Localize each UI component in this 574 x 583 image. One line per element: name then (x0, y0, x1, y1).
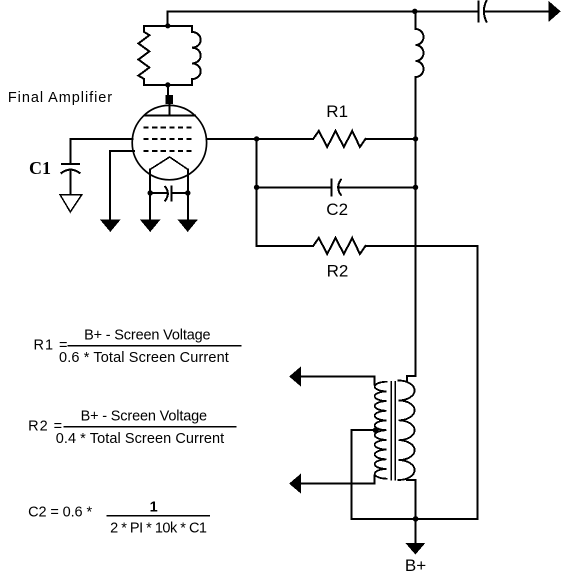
wire tank bottom bar (144, 84, 192, 86)
wire C1 to ground (69, 170, 71, 194)
tube control grid dashed (144, 150, 196, 152)
svg-text:R1: R1 (326, 102, 348, 121)
capacitor output coupling straight plate (478, 2, 480, 22)
node row2 left dot (254, 185, 259, 190)
tube grid 1 dashed (144, 126, 196, 128)
inductor tank right branch (192, 26, 201, 85)
capacitor C1 curved plate (62, 170, 80, 173)
inductor transformer primary winding (375, 382, 387, 479)
tube cathode tent (150, 157, 188, 170)
wire tank to tube top cap (167, 85, 169, 95)
svg-text:2 * PI * 10k * C1: 2 * PI * 10k * C1 (110, 521, 207, 537)
tube plate line (144, 114, 195, 116)
wire filament cap right (172, 192, 188, 194)
formula R2 fraction bar (65, 426, 236, 428)
wire tank top drop (167, 11, 169, 25)
wire top output line right segment (484, 10, 549, 12)
arrow RF output right (549, 2, 560, 21)
node row1 right dot (413, 136, 418, 141)
wire bus top (415, 11, 417, 29)
capacitor C2 curved plate (338, 180, 341, 195)
wire primary bottom lead (300, 476, 374, 484)
inductor transformer secondary winding (399, 381, 415, 481)
wire bus step to secondary (407, 376, 416, 381)
resistor tank left branch (138, 26, 149, 85)
wire tank top bar (144, 25, 192, 27)
wire row3 left segment (257, 245, 314, 247)
wire secondary bottom lead (407, 480, 416, 519)
svg-text:R2: R2 (327, 262, 349, 281)
ground arrow control grid (101, 220, 119, 231)
node tank bottom dot (165, 82, 170, 87)
node bottom rail junction dot (413, 516, 419, 522)
arrow primary bottom left (290, 475, 301, 493)
wire filament right lead (187, 170, 189, 220)
capacitor filament bypass curved plate (165, 187, 168, 201)
wire top output line left segment (168, 10, 478, 12)
resistor R2 (313, 238, 365, 254)
resistor R1 (313, 131, 365, 147)
node tank top dot (165, 23, 170, 28)
wire screen grid to C1 (70, 138, 132, 140)
tube U1 envelope circle (132, 105, 206, 179)
wire B+ drop (415, 519, 417, 543)
capacitor C2 straight plate (331, 179, 333, 195)
svg-text:C1: C1 (29, 158, 51, 178)
svg-text:C2 = 0.6 *: C2 = 0.6 * (28, 505, 92, 521)
svg-text:B+ - Screen Voltage: B+ - Screen Voltage (81, 409, 208, 425)
arrow B+ down (406, 543, 424, 553)
wire control grid left (110, 150, 134, 152)
wire row1 left segment (257, 138, 314, 140)
svg-text:0.6 * Total Screen Current: 0.6 * Total Screen Current (59, 350, 229, 366)
inductor RF choke (416, 29, 424, 77)
wire C1 drop (69, 139, 71, 164)
wire row3 right segment crossing bus (366, 245, 478, 247)
chassis ground open triangle under C1 (60, 195, 82, 212)
svg-text:B+: B+ (405, 556, 426, 575)
capacitor C1 straight plate (62, 163, 79, 165)
wire center tap leg (351, 430, 375, 519)
svg-text:0.4 * Total Screen Current: 0.4 * Total Screen Current (56, 431, 225, 447)
node top junction dot (412, 9, 417, 14)
formula R1 fraction bar (68, 345, 240, 347)
ground arrow filament right (179, 220, 197, 231)
tube screen grid dashed (144, 138, 196, 140)
wire top cap to plate (168, 104, 170, 115)
wire row2 right segment (338, 186, 416, 188)
wire bottom rail (351, 518, 477, 520)
wire primary top lead (300, 376, 374, 384)
wire bus middle (415, 77, 417, 376)
wire row1 right segment (366, 138, 416, 140)
wire right vertical to bottom rail (477, 246, 479, 519)
wire control grid ground drop (109, 151, 111, 219)
svg-text:Final Amplifier: Final Amplifier (8, 90, 112, 106)
wire filament cap left (150, 192, 167, 194)
wire network left vertical (256, 139, 258, 246)
wire screen grid to network (207, 138, 257, 140)
node filament left dot (148, 190, 153, 195)
capacitor filament bypass straight plate (171, 187, 173, 201)
node row2 right dot (413, 185, 418, 190)
svg-text:C2: C2 (326, 200, 348, 219)
svg-text:B+ - Screen Voltage: B+ - Screen Voltage (84, 328, 211, 344)
node filament right dot (185, 190, 190, 195)
tube top cap square (165, 95, 173, 104)
wire row2 left segment (257, 186, 332, 188)
capacitor output coupling curved plate (484, 1, 487, 22)
node network left row1 dot (254, 136, 259, 141)
arrow primary top left (290, 368, 301, 386)
wire filament left lead (149, 170, 151, 220)
transformer core line right (394, 382, 396, 480)
svg-text:1: 1 (150, 499, 158, 515)
node primary center tap dot (373, 427, 379, 433)
formula C2 fraction bar (107, 515, 208, 517)
ground arrow filament left (141, 220, 159, 231)
transformer core line left (390, 382, 392, 480)
